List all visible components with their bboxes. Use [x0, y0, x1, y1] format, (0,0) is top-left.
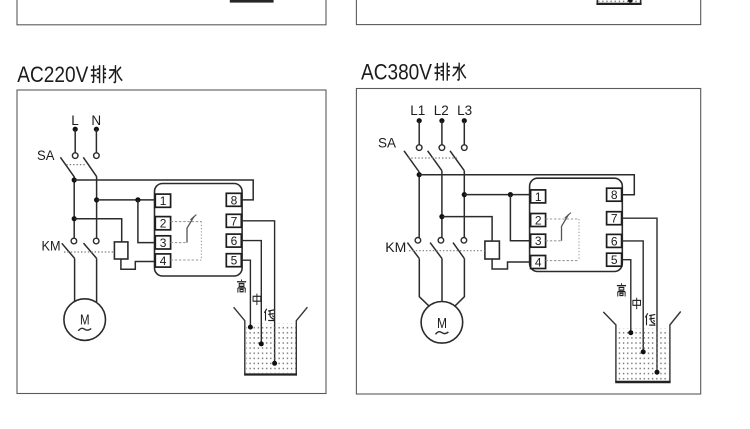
L column wire — [73, 177, 75, 239]
coil KM — [114, 242, 128, 259]
svg-text:M: M — [437, 316, 447, 332]
wire KM2 to motor — [96, 258, 98, 302]
L3 column wire — [463, 171, 465, 238]
wire N to pin1 — [97, 199, 156, 201]
internal relay blade tick — [565, 213, 571, 218]
KM contact circle 3 — [461, 238, 467, 244]
low probe dot — [272, 361, 277, 366]
motor tilde — [436, 332, 449, 335]
node pin3 branch junction — [135, 197, 140, 202]
svg-text:1: 1 — [535, 190, 542, 204]
wire KM3 to motor — [455, 259, 465, 307]
pin 7 box — [226, 214, 241, 227]
svg-text:SA: SA — [37, 148, 55, 163]
L2 column wire — [441, 171, 443, 238]
node L1-pin8 junction — [417, 172, 422, 177]
top box A (cut off) — [17, 0, 326, 25]
mid probe dot — [641, 349, 646, 354]
label 低 — [264, 309, 274, 321]
pin 8 box — [226, 193, 241, 206]
node L3-pin1 junction — [462, 192, 467, 197]
svg-text:KM: KM — [42, 237, 61, 253]
KM contact circle 1 — [415, 238, 421, 244]
L2 terminal dot — [439, 118, 444, 123]
svg-text:4: 4 — [160, 254, 167, 268]
pin 3 box — [155, 236, 170, 249]
tank bottom — [615, 381, 670, 383]
internal relay blade — [187, 216, 194, 242]
wire L2 to coil top — [442, 217, 492, 242]
wire L to pin8 — [74, 180, 253, 200]
wire N down — [95, 129, 97, 153]
cut tank water in top box B — [598, 0, 640, 3]
node L-pin8 junction — [72, 177, 77, 182]
svg-text:L3: L3 — [457, 103, 472, 118]
svg-text:SA: SA — [378, 136, 396, 151]
tank bottom bar (cut tank in top box A) — [230, 0, 274, 3]
internal relay blade — [562, 214, 569, 241]
svg-text:3: 3 — [535, 234, 542, 248]
svg-text:6: 6 — [231, 234, 238, 248]
top box B (cut off) — [356, 0, 700, 25]
KM contact circle 2 — [438, 238, 444, 244]
wire L3 to pin1 — [464, 194, 530, 196]
L3 terminal dot — [462, 118, 467, 123]
relay U2 outline — [530, 178, 623, 271]
tank water — [246, 323, 296, 373]
internal contact dashed line pin2 — [546, 218, 579, 220]
pin 1 box — [155, 194, 170, 207]
N terminal dot — [94, 127, 99, 132]
outer box — [17, 90, 326, 394]
KM coupling dotted link — [409, 250, 485, 252]
svg-text:4: 4 — [535, 256, 542, 270]
L1 column wire — [418, 172, 420, 238]
N column wire — [96, 177, 98, 239]
KM blade 2 — [430, 243, 442, 259]
label 低 — [645, 313, 655, 325]
SA coupling dotted link — [408, 157, 457, 159]
SA contact circle 2 — [439, 145, 445, 151]
svg-text:7: 7 — [231, 214, 238, 228]
wire pin6 to mid probe — [622, 241, 644, 352]
SA contact circle N — [94, 153, 100, 159]
svg-text:6: 6 — [611, 234, 618, 248]
tank walls — [234, 307, 308, 374]
pin 6 box — [607, 234, 622, 247]
svg-text:5: 5 — [231, 254, 238, 268]
pin 5 box — [226, 254, 241, 267]
KM blade 1 — [62, 243, 75, 258]
outer box — [356, 89, 700, 395]
SA blade 1 — [404, 151, 419, 172]
pin 2 box — [155, 217, 170, 230]
internal contact dashed line pin3 — [546, 240, 562, 242]
pin 5 box — [607, 253, 622, 266]
coil KM — [485, 241, 500, 259]
high probe dot — [628, 330, 633, 335]
tank walls — [603, 312, 680, 382]
pin 3 box — [531, 234, 546, 247]
node N-pin1 junction — [94, 197, 99, 202]
svg-text:2: 2 — [160, 217, 167, 231]
cut tank probe dot in top box B — [628, 0, 633, 3]
internal contact dashed line pin4 — [546, 260, 579, 262]
internal relay blade tick — [190, 215, 196, 220]
wire KM1 to motor — [74, 258, 76, 301]
wire to pin3 — [138, 200, 155, 243]
KM blade 2 — [84, 243, 97, 258]
wire L1 to pin8 — [419, 175, 634, 195]
L1 terminal dot — [417, 118, 422, 123]
wire L2 down — [441, 121, 443, 145]
wire L to coil top — [74, 219, 122, 242]
wire L down — [74, 129, 76, 153]
svg-text:L: L — [71, 113, 79, 128]
label 高 — [237, 279, 246, 292]
internal contact dashed line pin4 — [171, 259, 202, 261]
motor M circle — [64, 299, 106, 341]
wire pin7 to low probe — [241, 221, 274, 363]
pin 7 box — [607, 212, 622, 225]
node L-coil junction — [72, 216, 77, 221]
L terminal dot — [73, 127, 78, 132]
KM blade 3 — [453, 243, 464, 259]
pin 8 box — [607, 188, 622, 201]
internal dotted vertical — [200, 222, 202, 260]
low probe dot — [655, 370, 660, 375]
wire KM1 to motor — [419, 259, 429, 307]
label 高 — [617, 283, 626, 296]
mid probe dot — [259, 341, 264, 346]
pin 6 box — [226, 234, 241, 247]
svg-text:1: 1 — [160, 194, 167, 208]
svg-text:8: 8 — [611, 188, 618, 202]
SA contact circle 3 — [462, 145, 468, 151]
svg-text:L2: L2 — [434, 103, 449, 118]
SA blade L — [60, 157, 74, 177]
motor tilde — [78, 328, 91, 331]
cut tank bottom in top box B — [596, 3, 641, 5]
SA blade 3 — [450, 151, 464, 171]
relay U1 outline — [155, 184, 243, 277]
pin 1 box — [531, 190, 546, 203]
pin 4 box — [531, 256, 546, 269]
wire L3 down — [463, 121, 465, 145]
svg-text:2: 2 — [535, 214, 542, 228]
label 中 — [633, 298, 641, 309]
KM blade 1 — [407, 243, 419, 259]
wire pin7 to low probe — [622, 218, 657, 372]
tank water — [617, 328, 668, 380]
svg-text:5: 5 — [611, 253, 618, 267]
tank bottom — [244, 373, 297, 375]
label 中 — [253, 294, 261, 305]
svg-text:KM: KM — [385, 239, 406, 255]
svg-text:7: 7 — [611, 212, 618, 226]
wire L1 down — [418, 121, 420, 145]
internal contact dashed line pin2 — [171, 221, 202, 223]
svg-text:L1: L1 — [410, 103, 425, 118]
motor M circle — [421, 302, 463, 344]
wire pin6 to mid probe — [241, 241, 261, 344]
internal contact dashed line pin3 — [171, 242, 187, 244]
svg-text:M: M — [80, 312, 90, 328]
pin 4 box — [155, 254, 170, 267]
wire coil to pin4 — [492, 259, 530, 269]
internal dotted vertical — [578, 219, 580, 261]
SA blade 2 — [428, 151, 442, 171]
wire coil to pin4 — [121, 259, 155, 269]
svg-text:N: N — [91, 113, 101, 128]
wire pin5 to high probe — [622, 260, 631, 333]
SA coupling dotted link — [66, 164, 85, 166]
svg-text:3: 3 — [160, 236, 167, 250]
svg-text:AC220V: AC220V — [17, 62, 88, 87]
KM contact circle 1 — [71, 238, 77, 244]
node pin3 branch junction — [508, 192, 513, 197]
pin 2 box — [531, 214, 546, 227]
node L2-coil junction — [439, 214, 444, 219]
svg-text:AC380V: AC380V — [361, 60, 432, 85]
wire pin5 to high probe — [241, 260, 250, 327]
cut tank walls in top box B — [597, 0, 640, 3]
SA contact circle 1 — [416, 145, 422, 151]
high probe dot — [248, 325, 253, 330]
SA contact circle L — [72, 153, 78, 159]
wire KM2 to motor — [441, 259, 443, 302]
wire to pin3 — [510, 195, 530, 241]
svg-text:8: 8 — [231, 193, 238, 207]
KM coupling dotted link — [64, 251, 114, 253]
SA blade N — [83, 157, 96, 176]
KM contact circle 2 — [93, 238, 99, 244]
